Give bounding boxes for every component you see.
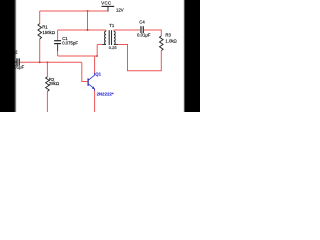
capacitor C1 <box>54 36 78 46</box>
black crop band left <box>0 0 15 112</box>
svg-text:0.01μF: 0.01μF <box>137 33 151 38</box>
svg-text:T1: T1 <box>109 23 115 28</box>
resistor R3 <box>160 32 178 50</box>
svg-text:R3: R3 <box>165 32 171 37</box>
transformer T1 <box>105 23 118 50</box>
wire R1 top lead <box>39 11 41 24</box>
wire primary bottom lead <box>97 44 102 46</box>
svg-text:150kΩ: 150kΩ <box>42 30 55 35</box>
power VCC <box>101 0 123 12</box>
wire secondary top to C4 <box>114 29 140 31</box>
svg-text:28kΩ: 28kΩ <box>49 81 60 86</box>
wire R2 top lead <box>46 62 48 76</box>
wire R2 bottom lead to edge <box>46 91 48 112</box>
node junction tank top <box>87 29 89 31</box>
wire VCC rail top <box>40 10 108 12</box>
node junction on rail <box>87 10 89 12</box>
svg-text:0.25: 0.25 <box>109 45 118 50</box>
wire C1 bottom lead <box>57 44 59 51</box>
svg-text:2N2222*: 2N2222* <box>97 92 114 97</box>
wire base run to Q1 <box>82 62 88 81</box>
black crop band right <box>185 0 200 112</box>
wire tank top horizontal <box>58 29 106 31</box>
wire C1 bottom horizontal to collector node <box>58 55 98 57</box>
wire VCC drop to tank <box>87 11 89 30</box>
wire C1 top lead <box>57 30 59 40</box>
resistor R1 <box>38 24 56 39</box>
wire R1 bottom lead <box>39 39 41 62</box>
svg-text:0.075pF: 0.075pF <box>62 41 78 46</box>
svg-text:Q1: Q1 <box>95 72 101 77</box>
wire emitter to bottom edge <box>94 91 96 113</box>
node junction collector <box>96 55 98 57</box>
svg-text:R1: R1 <box>42 24 48 29</box>
node junction R1-bottom <box>39 61 41 63</box>
svg-text:12V: 12V <box>116 7 124 12</box>
capacitor C2 <box>11 49 25 69</box>
svg-text:C4: C4 <box>139 20 145 25</box>
capacitor C4 <box>137 20 151 38</box>
wire base node horizontal <box>20 61 82 63</box>
resistor R2 <box>46 77 60 92</box>
transistor Q1 <box>88 56 114 97</box>
wire primary bottom vertical <box>96 45 98 57</box>
wire R3 bottom U to secondary <box>118 45 161 71</box>
node junction R2-top <box>46 61 48 63</box>
svg-text:VCC: VCC <box>101 0 111 5</box>
svg-text:1.0kΩ: 1.0kΩ <box>165 39 177 44</box>
wire C4 to R3 <box>144 30 162 36</box>
